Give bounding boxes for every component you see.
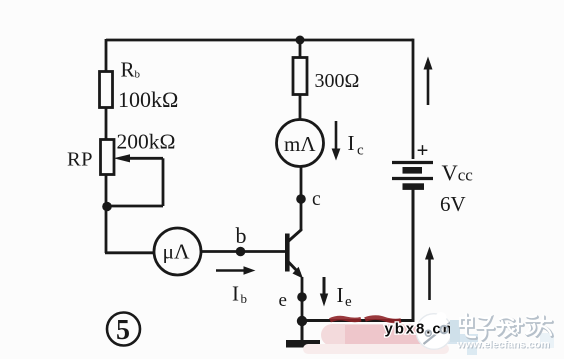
ground: [301, 321, 304, 341]
svg-text:e: e: [279, 290, 287, 311]
svg-text:mΛ: mΛ: [284, 132, 316, 156]
arrow Ic: [335, 121, 338, 151]
meter U2 microammeter: [154, 228, 201, 275]
svg-text:5: 5: [116, 315, 130, 346]
watermark logo circle: [416, 312, 452, 349]
arrow Ie: [323, 277, 326, 296]
wire left rail upper: [105, 39, 108, 72]
watermark blue patches: [450, 320, 460, 342]
svg-text:+: +: [417, 138, 429, 162]
svg-text:RP: RP: [67, 149, 93, 171]
RP wiper arrow: [126, 157, 163, 160]
node b: [236, 247, 246, 257]
svg-text:ybx8.cn: ybx8.cn: [385, 321, 454, 338]
wire resistor to top rail: [299, 40, 302, 58]
resistor Rb: [100, 72, 113, 108]
svg-text:200kΩ: 200kΩ: [117, 130, 176, 154]
transistor Q1 emitter lead with arrow: [288, 262, 300, 275]
wire bottom rail: [302, 319, 413, 322]
svg-text:b: b: [236, 223, 247, 248]
svg-text:μΛ: μΛ: [163, 240, 191, 264]
svg-text:6V: 6V: [440, 192, 466, 216]
wire Rb to RP: [105, 107, 108, 140]
watermark chinese brush characters: [460, 314, 552, 340]
wire wiper feedback down: [162, 158, 165, 206]
watermark logo link rings: [425, 330, 431, 336]
watermark red scribble: [330, 318, 401, 321]
battery Vcc plates: [392, 161, 433, 164]
meter U1 milliammeter: [277, 120, 324, 167]
wire emitter vertical: [301, 277, 304, 321]
svg-text:www.elecfans.com: www.elecfans.com: [456, 340, 550, 351]
wire collector to node c to mA meter: [300, 167, 303, 230]
transistor Q1 collector lead: [288, 229, 301, 242]
node junction wiper/rail: [102, 202, 112, 212]
wire top rail: [106, 39, 413, 42]
watermark blue band under logo: [445, 334, 478, 344]
svg-text:300Ω: 300Ω: [315, 70, 360, 92]
potentiometer RP: [101, 140, 115, 175]
wire right rail lower: [412, 189, 415, 322]
figure number circled 5: [107, 313, 140, 346]
wire mA meter to resistor 300: [299, 95, 302, 120]
wire wiper feedback left: [107, 205, 163, 208]
node junction top (collector branch): [296, 36, 305, 45]
transistor Q1 base bar: [285, 234, 290, 272]
wire right rail upper: [412, 39, 415, 159]
watermark pink blob: [303, 324, 449, 354]
wire left rail lower: [105, 174, 108, 253]
node c: [296, 194, 306, 204]
arrow current up bottom-right: [428, 258, 431, 300]
node junction emitter/ground: [297, 316, 307, 326]
wire meter to base: [201, 250, 286, 253]
resistor R2 300ohm: [293, 58, 307, 95]
arrow Ib: [216, 269, 247, 272]
arrow current up top-right: [427, 68, 430, 105]
wire rail to microammeter: [105, 251, 154, 254]
node e: [297, 292, 307, 302]
svg-text:c: c: [312, 189, 321, 210]
svg-text:100kΩ: 100kΩ: [118, 87, 178, 112]
